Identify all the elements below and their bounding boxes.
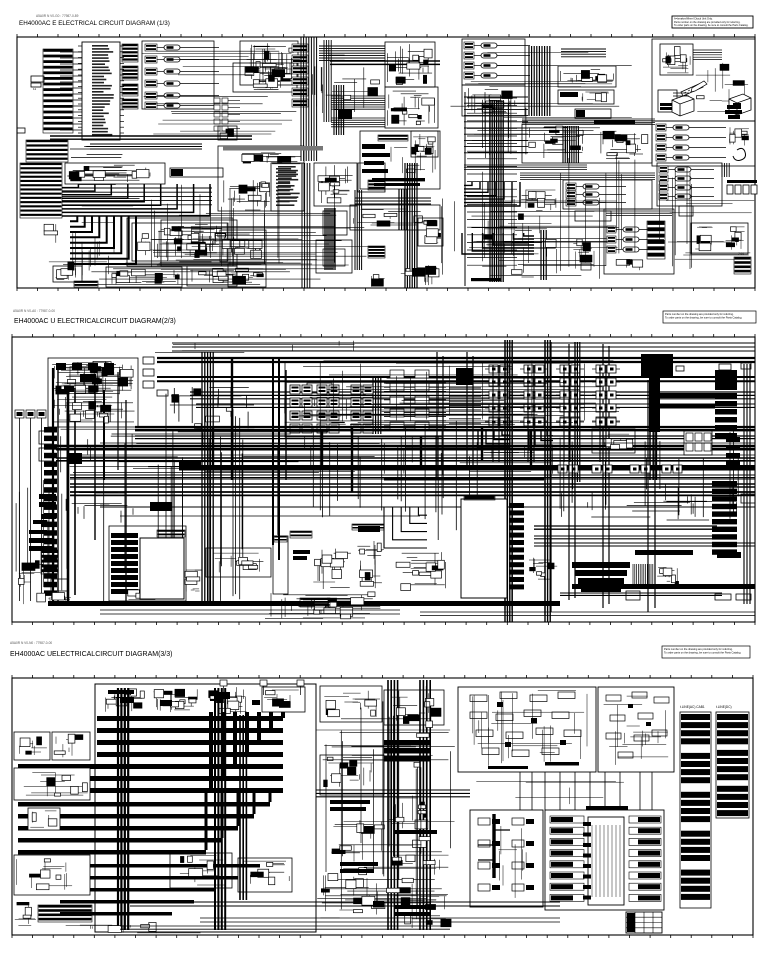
- mid band black bars 2: [330, 800, 437, 834]
- lamp relay K252: [656, 134, 726, 141]
- flow box FA dark nodes: [497, 702, 566, 747]
- tile4 extra v wires: [442, 172, 600, 279]
- horn relay comps 1: [19, 737, 47, 756]
- rectifier stack rows B: [449, 388, 481, 428]
- aux device AD2: [39, 448, 53, 461]
- option panel OP1: [652, 39, 755, 121]
- transformer T13: [290, 424, 312, 433]
- main power bus PB2: [157, 377, 755, 381]
- svg-text:11: 11: [33, 87, 36, 91]
- connector CN104: [122, 99, 138, 109]
- bottom band stack: [60, 864, 260, 916]
- mid wires 2: [384, 437, 556, 474]
- mid right pair: [534, 543, 755, 546]
- svg-text:To order parts on the drawing,: To order parts on the drawing, be sure t…: [664, 651, 741, 655]
- bottom striped block BS3: [38, 905, 92, 922]
- relay K102 with connector: [145, 56, 219, 63]
- sensor group SG1: [462, 39, 525, 85]
- contactor MC43: [592, 391, 620, 399]
- relay K202: [464, 52, 530, 59]
- io panel IOA wires: [499, 826, 527, 898]
- transformer T22: [317, 411, 339, 420]
- mid cluster C comps: [323, 757, 373, 787]
- meter box MB1: [358, 163, 385, 192]
- mid band cross wires: [317, 719, 455, 903]
- mid vertical wires: [151, 180, 334, 267]
- sheet 2 bottom ruler ticks: [12, 622, 755, 625]
- corner frames CF1: [384, 507, 427, 548]
- bottom heavy band BB3: [48, 601, 560, 606]
- svg-text:t.LINE(AC) CAB1: t.LINE(AC) CAB1: [680, 705, 705, 709]
- contactor MC46: [592, 418, 620, 426]
- connector CN204: [157, 390, 168, 396]
- lower bus LH4: [120, 515, 420, 517]
- indicator label: [323, 249, 345, 266]
- label box LB30: [575, 211, 611, 221]
- crossing verticals: [483, 92, 526, 158]
- contactor MC35: [556, 417, 584, 425]
- bottom left comps t4: [401, 265, 439, 285]
- table bar: [717, 552, 741, 558]
- converter dark stack: [111, 533, 138, 538]
- CU2 h wires: [52, 362, 121, 414]
- contactor MC42: [592, 378, 620, 386]
- bottom heavy band BB2: [572, 584, 755, 589]
- contactor MC14: [485, 404, 513, 412]
- contactor MCB662: [658, 465, 686, 473]
- black label bar BL1: [594, 120, 635, 125]
- contactor MC31: [556, 365, 584, 373]
- lamp relay K253: [656, 144, 726, 151]
- control unit heavy drop bars: [53, 368, 126, 601]
- engine unit box EU1: [385, 42, 435, 87]
- dc bus H6: [70, 475, 755, 478]
- aux circuit flow box FB: [598, 687, 674, 772]
- mid black bars: [384, 740, 430, 746]
- terminal box TB20: [271, 163, 304, 211]
- meter unit label bars: [372, 178, 425, 186]
- harness HB30: [464, 165, 587, 169]
- tile4 extra h wires: [469, 201, 618, 275]
- left-mid connect wires: [137, 932, 200, 934]
- dl3 top comps C: [208, 687, 246, 715]
- inverter side comps: [185, 570, 202, 592]
- bottom harness BH2: [200, 918, 560, 922]
- transformer row comps: [190, 268, 235, 282]
- power section cross wires: [287, 361, 619, 425]
- left bus elbows: [170, 387, 254, 429]
- bottom cluster BC1: [265, 592, 380, 619]
- relay K302: [566, 191, 626, 198]
- mid cluster A comps: [324, 691, 380, 717]
- controller unit U101 box: [82, 42, 120, 140]
- right column comps RC2: [357, 541, 384, 588]
- meter unit box MU1: [360, 131, 440, 189]
- heater box HB3: [14, 855, 90, 895]
- feeder bundle FV1: [373, 378, 381, 434]
- aux circuit flow box FA: [458, 687, 596, 772]
- aux box AB30 comps: [422, 220, 441, 243]
- ruler symbol: [681, 83, 703, 96]
- connector CN203: [143, 381, 154, 388]
- relay K104 with connector: [145, 80, 219, 87]
- sheet 1 note box: [672, 16, 753, 28]
- top border connectors: [220, 680, 227, 695]
- dc bus H2: [135, 436, 755, 439]
- pump unit top bus: [606, 211, 672, 215]
- transformer T21: [317, 398, 339, 407]
- io panel IOA comps: [478, 818, 534, 891]
- dl3 vertical bundle V3: [240, 715, 246, 900]
- io module bottom bars: [660, 103, 675, 110]
- terminal fan TF1: [633, 564, 653, 586]
- section rail line: [464, 92, 466, 286]
- valve relay K321: [659, 166, 714, 173]
- relay K101 with connector: [145, 44, 219, 51]
- fuse F1: [17, 128, 25, 133]
- flow box FA wires: [473, 691, 587, 766]
- sub box SU1: [411, 131, 438, 157]
- terminal box text: [276, 168, 298, 206]
- contactor MC13: [485, 391, 513, 399]
- bottom wires BW2: [420, 612, 755, 615]
- dl3 top comps B: [154, 689, 198, 712]
- label strip LS2: [74, 281, 98, 287]
- pump bottom comps: [616, 259, 643, 270]
- clip symbol: [733, 148, 746, 160]
- label box LB20: [575, 109, 611, 118]
- mid bus MB3: [534, 536, 717, 539]
- mid band extra comps: [328, 716, 433, 925]
- meter sub comps: [354, 209, 436, 227]
- relay K203: [464, 62, 530, 69]
- main power band stack lower: [18, 802, 270, 855]
- svg-text:Parts number on the drawing ar: Parts number on the drawing are provided…: [664, 647, 733, 651]
- dc link bundle V2: [545, 340, 550, 622]
- dark part stack: [725, 105, 742, 119]
- terminal block TB2: [31, 76, 44, 82]
- connector CN202: [143, 369, 154, 376]
- sensor teeth row: [290, 531, 312, 538]
- connector CN103: [122, 84, 138, 96]
- dark bar DB3: [358, 526, 380, 532]
- small box comps: [30, 811, 57, 827]
- label plate LP1: [170, 168, 223, 177]
- transformer T23: [317, 424, 339, 433]
- svg-text:EH4000AC U ELECTRICALCIRCUIT: EH4000AC U ELECTRICALCIRCUIT DIAGRAM(2/3…: [14, 318, 176, 325]
- meter box label: [368, 180, 385, 190]
- contactor MC26: [520, 418, 548, 426]
- transformer group enclosure: [285, 362, 443, 437]
- controller U101 right pins: [120, 46, 124, 133]
- ctrl box CB20 comps: [560, 70, 613, 83]
- dl3 top comps A: [106, 689, 145, 712]
- contactor MC34: [556, 404, 584, 412]
- traction inverter white box INV2: [461, 499, 507, 598]
- flow box FA components: [470, 692, 581, 766]
- main cabinet right comps: [601, 131, 648, 159]
- flow box FB wires: [604, 696, 669, 765]
- relay box RBX2 comps: [69, 165, 150, 182]
- ctrl box CB21: [558, 90, 614, 104]
- lamp box comps: [24, 773, 88, 797]
- dark bundle W7: [325, 208, 335, 270]
- sheet 1 border: [17, 37, 755, 288]
- connector blob CB2: [150, 502, 172, 511]
- lower bus LH2: [70, 492, 755, 495]
- junction box JB1: [218, 126, 237, 140]
- isometric cube part B: [729, 94, 751, 115]
- CU2 extra dark bits: [64, 368, 114, 392]
- lower left comps: [49, 593, 71, 602]
- terminal table T1: [680, 712, 711, 908]
- relay unit RU5 comps: [318, 165, 353, 203]
- heater comps: [17, 859, 72, 890]
- cluster CL30: [521, 190, 556, 211]
- right teeth row RT21: [352, 524, 384, 530]
- inverter top teeth: [464, 495, 495, 500]
- bottom right corner comps: [371, 275, 384, 287]
- resistor grid bank right: [715, 370, 737, 390]
- dl3 top comps C dark bit: [214, 692, 230, 699]
- main drop bundle MD1: [202, 352, 213, 602]
- converter teeth row: [157, 530, 185, 537]
- io module IO1: [658, 90, 677, 112]
- meter unit rows: [362, 144, 390, 173]
- sheet 2 note box: [663, 311, 756, 323]
- bottom cross wires: [63, 263, 349, 285]
- label plate LP1 bar: [171, 169, 183, 176]
- contactor MC21: [520, 365, 548, 373]
- right half connect wires: [476, 782, 624, 805]
- transformer T10: [290, 385, 312, 394]
- meter drop bundle W10: [399, 189, 407, 230]
- main harness bus HB1: [50, 136, 252, 139]
- ctrl box CB20: [558, 66, 616, 87]
- relay group RG2 comps: [164, 223, 233, 262]
- central bundle W20: [529, 46, 550, 116]
- label bar BL30: [471, 278, 501, 281]
- long vertical feeders: [437, 340, 655, 615]
- io panel heavy drop bar: [478, 814, 510, 878]
- cpu harness: [693, 50, 722, 60]
- rectifier stack rows A: [384, 383, 446, 429]
- contactor MC33: [556, 391, 584, 399]
- bus extra lines A: [135, 430, 755, 432]
- inverter module white box INV1: [140, 538, 184, 599]
- mid cluster E comps: [331, 820, 384, 861]
- relay K106 with connector: [145, 102, 219, 109]
- aux box AB30: [418, 218, 443, 246]
- flow-to-io drop wires: [520, 772, 652, 810]
- pump unit PU30: [604, 209, 674, 274]
- power unit PU2 box: [233, 63, 297, 92]
- main cabinet MC1 comps: [528, 126, 584, 158]
- breaker drop solid band: [649, 377, 660, 432]
- bus drop wires left: [67, 394, 243, 604]
- lower band verticals: [206, 790, 270, 850]
- converter unit CV1: [109, 526, 186, 601]
- transformer T11: [290, 398, 312, 407]
- right cluster RC3: [529, 558, 557, 580]
- terminal RT2: [741, 363, 751, 369]
- main power bus PB3: [190, 392, 755, 399]
- plc box PLC: [545, 810, 664, 910]
- dark device DD1: [68, 453, 82, 464]
- sensor box comps: [56, 268, 76, 280]
- terminal block TB3: [31, 83, 41, 87]
- tiny box TB30: [679, 206, 693, 216]
- main harness bus HB2: [90, 144, 202, 149]
- transformer T12: [290, 411, 312, 420]
- pump relay K311: [607, 226, 664, 233]
- plc cpu pin text: [592, 825, 620, 897]
- relay matrix RM1: [684, 431, 712, 455]
- cpu module comps: [663, 47, 690, 73]
- dark block assembly DB4: [572, 562, 630, 568]
- legend grid: [626, 912, 662, 933]
- harness bend bundle SB1: [62, 184, 210, 216]
- harness bend bundle SB2: [70, 216, 136, 264]
- controller U101 text: [92, 45, 114, 136]
- right edge bundle W33: [722, 163, 729, 177]
- meter sub box: [350, 205, 440, 230]
- distribution box DB1: [218, 146, 304, 211]
- center heavy pair: [330, 61, 440, 64]
- controller U101 left pins: [78, 46, 82, 133]
- left margin verticals: [16, 480, 62, 590]
- mid cluster G comps: [391, 840, 448, 875]
- cluster RC4: [657, 568, 679, 587]
- fan box left comps: [695, 227, 712, 251]
- dark band lower left: [384, 477, 544, 481]
- bottom wires BW1: [100, 610, 400, 614]
- transformer T20: [317, 385, 339, 394]
- sheet 1 top ruler ticks: [17, 34, 755, 37]
- bus drop wires right: [560, 431, 738, 519]
- dark bar DB2b: [293, 556, 307, 560]
- svg-text:To order parts on the drawing,: To order parts on the drawing, be sure t…: [674, 24, 749, 27]
- valve panel VP30: [657, 163, 722, 206]
- relay group RG3: [220, 230, 266, 262]
- valve relay K322: [659, 175, 714, 182]
- relay K103 with connector: [145, 68, 219, 75]
- control unit top dark connectors: [56, 363, 114, 370]
- svg-text:A5A0R N V0-A0 : 77987-0-00: A5A0R N V0-A0 : 77987-0-00: [13, 309, 55, 313]
- power unit PU1 box: [240, 41, 298, 85]
- main power band verticals: [211, 712, 283, 790]
- bus tap block: [179, 460, 201, 469]
- dc link bundle V3: [575, 342, 580, 482]
- far right wires: [666, 201, 754, 260]
- sheet 2 top ruler ticks: [12, 334, 755, 337]
- terminal table T2: [716, 712, 749, 818]
- mid vertical bundle MV2: [420, 680, 430, 930]
- dl3 vertical bundle V1: [118, 688, 128, 930]
- svg-text:A5A0R N V0-G0 : 77987-0-89: A5A0R N V0-G0 : 77987-0-89: [36, 14, 79, 18]
- main breaker solid block: [641, 354, 673, 377]
- main heavy verticals left: [232, 357, 286, 560]
- mid band vert wires: [326, 686, 451, 918]
- relay group RG3 comps: [222, 234, 264, 258]
- right edge bundle RE1: [744, 364, 750, 604]
- sheet 1 bottom ruler ticks: [17, 288, 755, 291]
- cluster center C2: [313, 549, 351, 589]
- left black stripe column: [44, 427, 57, 596]
- lamp relay K251: [656, 124, 726, 131]
- left striped stack LS21: [41, 550, 58, 574]
- contactor MCB558: [554, 465, 582, 473]
- top left cross wires: [142, 51, 300, 134]
- bus elbow E1: [478, 431, 510, 448]
- transformer row box TRB: [187, 266, 237, 286]
- bend bundle SB31: [462, 233, 534, 254]
- contactor MC45: [592, 417, 620, 425]
- sheet 3 bottom ruler ticks: [12, 935, 753, 938]
- connector CN102: [122, 66, 138, 80]
- main power bus PB4: [196, 404, 755, 407]
- shaded bus bar BB1: [223, 146, 323, 151]
- aux box AB1 comps: [231, 268, 264, 285]
- right half vert wires: [569, 154, 692, 269]
- svg-text:EH4000AC E ELECTRICAL CIRCUIT: EH4000AC E ELECTRICAL CIRCUIT DIAGRAM (1…: [19, 20, 170, 27]
- contactor MC11: [485, 365, 513, 373]
- inverter right bar stack: [509, 503, 524, 508]
- svg-text:EH4000AC UELECTRICALCIRCUIT D: EH4000AC UELECTRICALCIRCUIT DIAGRAM(3/3): [10, 651, 172, 658]
- lower bus LH3: [100, 506, 755, 508]
- relay panel RP30: [563, 180, 652, 209]
- heavy bus band H5: [179, 465, 755, 471]
- dl3 top comps A dark bits: [108, 690, 134, 703]
- connector column CN110: [214, 98, 240, 103]
- bottom left comps: [15, 902, 36, 925]
- power section vert wires: [320, 360, 584, 425]
- chopper box CH1: [592, 429, 635, 453]
- transformer T31: [351, 398, 373, 407]
- io panel box IOA: [470, 810, 543, 907]
- harness terminal stack TB1: [43, 49, 73, 133]
- bottom stripes BS1: [300, 598, 330, 607]
- pencil symbol: [691, 81, 707, 92]
- wire web center: [224, 180, 270, 210]
- mid cluster B comps: [391, 693, 441, 722]
- contactor MC22: [520, 378, 548, 386]
- dc bus H1: [135, 427, 755, 430]
- lamp panel LP2: [652, 121, 755, 166]
- contactor MCB630: [626, 465, 654, 473]
- contactor MCB592: [588, 465, 616, 473]
- bottom unit BU1 comps: [112, 269, 180, 284]
- harness HB21: [522, 119, 655, 124]
- flow box FB dark nodes: [628, 704, 651, 726]
- bus interconnect wires: [61, 429, 380, 472]
- control unit CU2 top components: [52, 361, 133, 394]
- left dark bundle W30: [405, 163, 417, 288]
- terminal RT1: [719, 364, 731, 370]
- relay K201: [464, 42, 530, 49]
- contactor MC15: [485, 417, 513, 425]
- mid cross wires: [152, 213, 380, 264]
- indicator box IB1: [316, 240, 352, 273]
- left bar stack lower: [39, 494, 56, 499]
- wire bundle W3 top: [319, 46, 385, 60]
- aux device AD1: [39, 431, 53, 444]
- pump relay K312: [607, 236, 664, 243]
- valve relay K323: [659, 184, 714, 191]
- mcb breaker row: [727, 180, 757, 194]
- fuse right FR2: [736, 594, 751, 600]
- power unit PU1 parts: [245, 43, 294, 82]
